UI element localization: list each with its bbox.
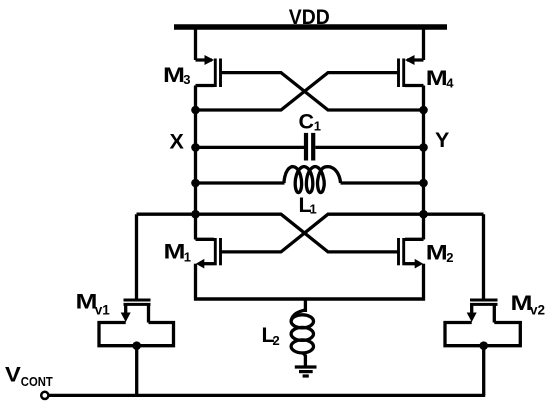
junction dot right upper <box>419 106 428 115</box>
wire M3 gate cross-couple to node Y side <box>221 73 424 110</box>
junction dot right L1 <box>419 179 428 188</box>
terminal Vcont <box>41 392 48 399</box>
power rail VDD <box>174 24 447 30</box>
svg-text:CONT: CONT <box>21 374 53 389</box>
C1 label <box>299 110 321 134</box>
wire to Mv2 gate <box>482 214 485 298</box>
wire Mv1 to Vcont rail <box>135 346 138 396</box>
wire node X to C1 <box>196 146 305 149</box>
svg-text:4: 4 <box>446 76 454 91</box>
svg-text:VDD: VDD <box>289 5 330 29</box>
junction dot Mv1 <box>132 341 141 350</box>
svg-text:M: M <box>164 239 186 263</box>
svg-text:M: M <box>426 241 448 265</box>
svg-text:v2: v2 <box>530 303 545 318</box>
Vcont label <box>5 362 53 389</box>
wire VDD to M3 source <box>194 27 197 60</box>
wire right node to Mv2 gate corner and M1 gate cross-couple <box>221 214 484 252</box>
L1 label <box>299 193 317 217</box>
node X vertical rail <box>194 86 197 240</box>
node Y vertical rail <box>422 86 425 240</box>
M4 label <box>426 66 455 91</box>
junction dot node Y <box>419 143 428 152</box>
junction dot left L1 <box>191 179 200 188</box>
junction dot left upper <box>191 106 200 115</box>
svg-text:2: 2 <box>446 250 453 265</box>
M1 label <box>164 239 192 264</box>
svg-text:M: M <box>163 63 185 87</box>
wire M4 gate cross-couple to node X side <box>196 73 399 110</box>
transistor M2 <box>399 238 424 269</box>
svg-text:X: X <box>170 130 185 154</box>
node Y label <box>435 128 449 152</box>
transistor M1 <box>196 238 221 269</box>
svg-text:Y: Y <box>435 128 449 152</box>
junction dot Mv2 <box>479 341 488 350</box>
Mv2 label <box>511 291 546 318</box>
L2 label <box>262 323 280 348</box>
transistor M4 <box>399 55 424 87</box>
wire node X to L1 <box>196 181 285 184</box>
junction dot node X <box>191 143 200 152</box>
tail source rail <box>194 297 425 300</box>
Mv1 label <box>76 290 111 318</box>
VDD label <box>289 5 330 29</box>
wire M1 source to tail rail <box>194 264 197 301</box>
svg-text:M: M <box>426 66 448 90</box>
wire C1 to node Y <box>315 146 423 149</box>
inductor L2 <box>291 310 313 357</box>
wire left node to Mv1 gate corner and M2 gate cross-couple <box>137 214 399 252</box>
M2 label <box>426 241 454 266</box>
wire M2 source to tail rail <box>422 264 425 301</box>
junction dot left lower <box>191 210 200 219</box>
wire to Mv1 gate <box>135 214 138 298</box>
svg-text:v1: v1 <box>95 303 111 318</box>
svg-text:C: C <box>299 110 315 134</box>
ground <box>295 367 317 376</box>
inductor L1 <box>284 167 341 193</box>
svg-text:1: 1 <box>314 119 321 134</box>
varactor Mv1 <box>99 300 174 346</box>
svg-text:1: 1 <box>184 249 191 264</box>
net Vcont rail <box>49 394 485 397</box>
capacitor C1 <box>306 133 313 161</box>
wire VDD to M4 source <box>422 27 425 60</box>
svg-text:V: V <box>5 362 22 386</box>
svg-text:2: 2 <box>273 333 280 348</box>
junction dot right lower <box>419 210 428 219</box>
node X label <box>170 130 185 154</box>
wire tail rail to L2 <box>304 299 307 312</box>
varactor Mv2 <box>445 300 520 346</box>
wire L1 to node Y <box>341 181 424 184</box>
svg-text:1: 1 <box>310 202 317 217</box>
wire Mv2 to Vcont rail <box>482 346 485 396</box>
M3 label <box>163 63 191 87</box>
svg-text:3: 3 <box>183 72 190 87</box>
transistor M3 <box>196 55 221 87</box>
wire L2 to ground <box>304 355 307 366</box>
